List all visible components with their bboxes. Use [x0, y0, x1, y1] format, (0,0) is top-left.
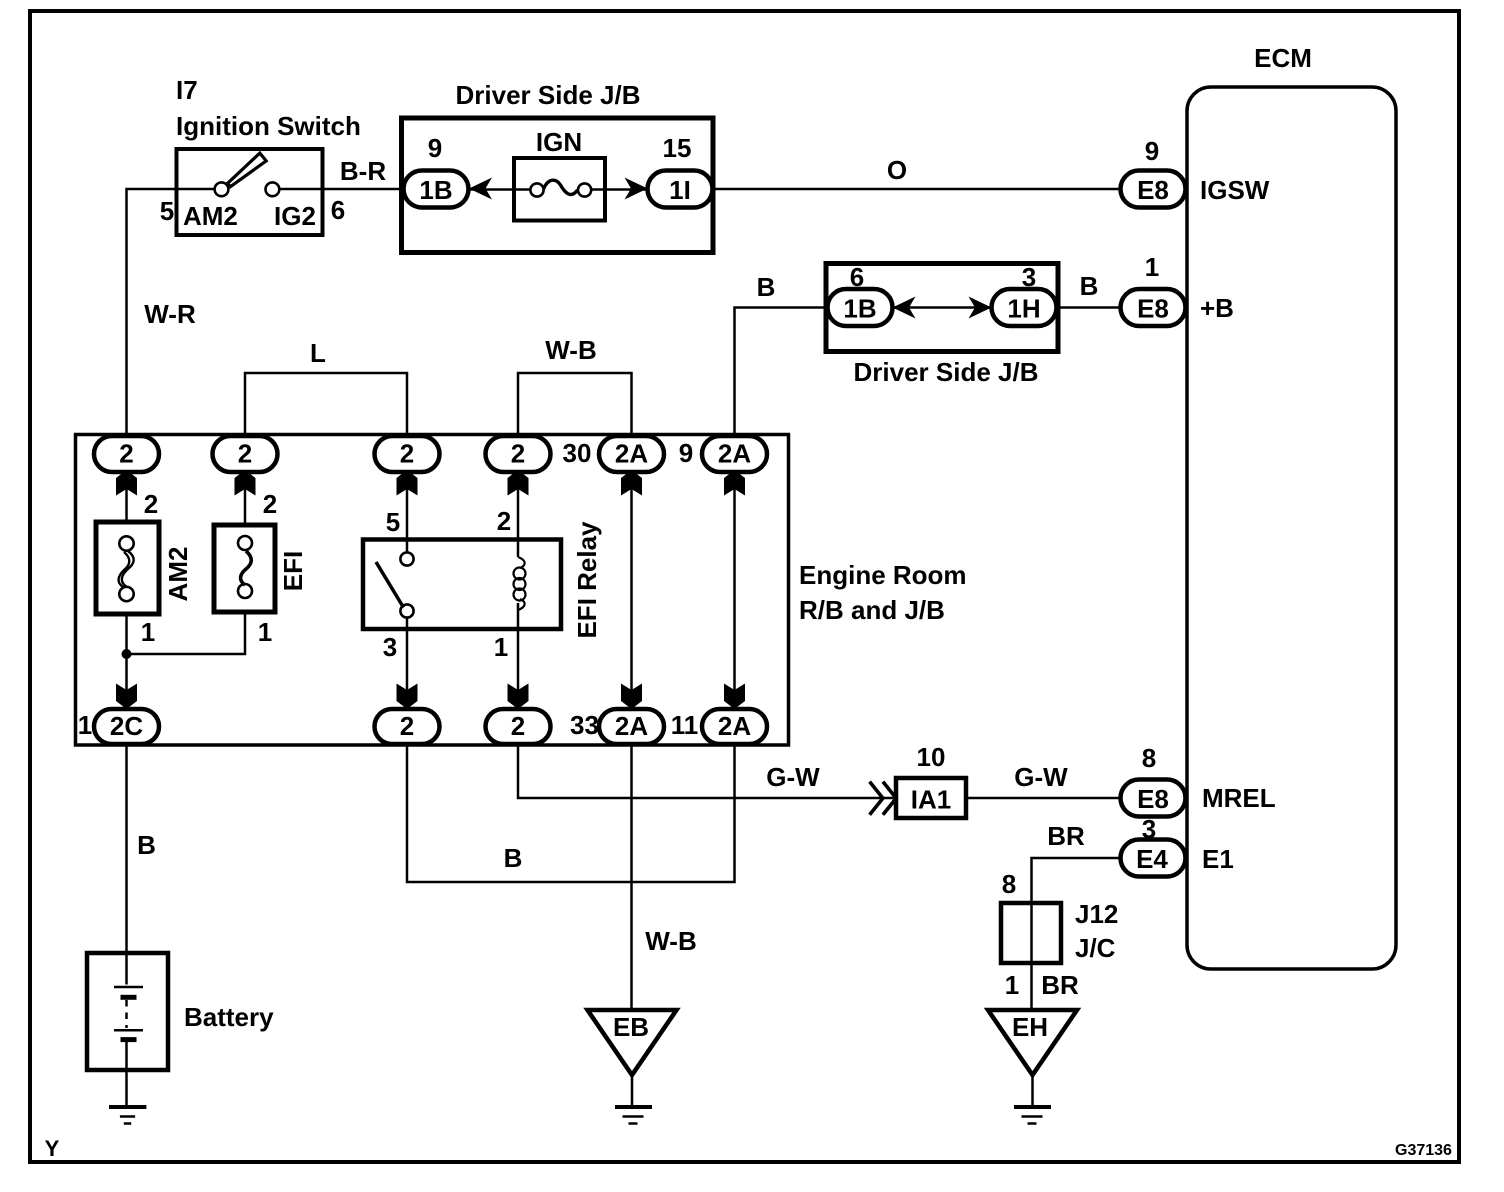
svg-text:2: 2 [400, 439, 414, 469]
Driver Side J/B (top) [402, 80, 714, 253]
connector E4 pin 3 (E1) [1121, 814, 1234, 877]
svg-text:6: 6 [850, 262, 864, 292]
fuse IGN [514, 127, 605, 221]
svg-text:Battery: Battery [184, 1002, 274, 1032]
svg-text:G37136: G37136 [1395, 1142, 1452, 1159]
svg-text:Engine Room: Engine Room [799, 560, 967, 590]
svg-text:B-R: B-R [340, 156, 386, 186]
svg-text:G-W: G-W [766, 762, 820, 792]
svg-text:2A: 2A [615, 439, 648, 469]
svg-text:1: 1 [78, 710, 92, 740]
svg-text:2A: 2A [718, 711, 751, 741]
svg-text:2C: 2C [110, 711, 143, 741]
svg-text:Driver Side J/B: Driver Side J/B [456, 80, 641, 110]
wire G-W to IA1 [518, 744, 896, 798]
connector 1B pin 6 [828, 262, 893, 326]
svg-text:AM2: AM2 [183, 201, 238, 231]
svg-text:2: 2 [238, 439, 252, 469]
svg-text:Ignition Switch: Ignition Switch [176, 111, 361, 141]
connector 1H pin 3 [992, 262, 1057, 326]
svg-text:W-B: W-B [645, 926, 696, 956]
connector IA1 pin 10 [896, 742, 966, 818]
connector E8 pin 1 (+B) [1121, 252, 1234, 326]
wire 1B to 1H internal [892, 306, 992, 309]
connector 2 (AM2 top) [94, 436, 159, 472]
svg-text:1: 1 [1145, 252, 1159, 282]
svg-text:6: 6 [331, 195, 345, 225]
svg-text:9: 9 [428, 133, 442, 163]
svg-text:BR: BR [1041, 970, 1079, 1000]
svg-text:IGSW: IGSW [1200, 175, 1270, 205]
svg-text:2: 2 [497, 506, 511, 536]
wire B lower route [407, 744, 735, 882]
svg-text:33: 33 [570, 710, 599, 740]
wire IG2 to 1B (B-R) [279, 188, 404, 191]
svg-text:B: B [1080, 271, 1099, 301]
EFI relay [363, 506, 602, 662]
svg-text:1: 1 [1005, 970, 1019, 1000]
connector E8 pin 9 (IGSW) [1121, 136, 1270, 208]
svg-text:2: 2 [511, 711, 525, 741]
connector 2 (coil 1 bottom) [486, 709, 551, 744]
svg-text:BR: BR [1047, 821, 1085, 851]
svg-text:Driver Side J/B: Driver Side J/B [854, 357, 1039, 387]
svg-text:3: 3 [1022, 262, 1036, 292]
svg-text:9: 9 [1145, 136, 1159, 166]
svg-text:8: 8 [1142, 743, 1156, 773]
ground (EH) [1014, 1107, 1051, 1124]
Driver Side J/B (second) [826, 264, 1058, 388]
connector 2 (relay coil top) [486, 436, 551, 472]
arrow up (2A9) [724, 470, 745, 496]
ground (battery) [109, 1107, 146, 1124]
svg-text:1B: 1B [843, 294, 876, 324]
wire 1B to IGN fuse [469, 188, 531, 191]
chevrons into IA1 [870, 782, 897, 815]
svg-text:2: 2 [144, 489, 158, 519]
svg-text:J/C: J/C [1075, 933, 1116, 963]
svg-text:MREL: MREL [1202, 783, 1276, 813]
connector 2A pin 30 [563, 436, 664, 472]
svg-text:2: 2 [263, 489, 277, 519]
svg-text:W-R: W-R [144, 299, 196, 329]
svg-text:11: 11 [671, 710, 699, 740]
wire battery B [125, 744, 128, 953]
wire 1H to E8 (B) [1057, 306, 1122, 309]
wire EH to ground [1031, 1075, 1034, 1105]
arrow down (2C) [116, 684, 137, 710]
fuse AM2 [96, 489, 193, 647]
svg-text:E8: E8 [1137, 784, 1169, 814]
ground point EH [988, 1010, 1077, 1075]
svg-text:2: 2 [119, 439, 133, 469]
wire B from 2A(9) to 1B [735, 308, 829, 437]
svg-text:2A: 2A [718, 439, 751, 469]
svg-text:1H: 1H [1007, 294, 1040, 324]
svg-text:I7: I7 [176, 75, 198, 105]
connector 2 (EFI top) [213, 436, 278, 472]
connector 2A pin 11 [671, 709, 767, 744]
arrow down (relay3) [397, 684, 418, 710]
svg-text:E1: E1 [1202, 844, 1234, 874]
connector 2 (relay 5 top) [375, 436, 440, 472]
ignition switch I7 [160, 75, 361, 235]
arrow down (2A11) [724, 684, 745, 710]
svg-text:+B: +B [1200, 293, 1234, 323]
svg-text:ECM: ECM [1254, 43, 1312, 73]
svg-text:B: B [757, 272, 776, 302]
svg-text:IGN: IGN [536, 127, 582, 157]
svg-text:10: 10 [917, 742, 946, 772]
wire J12 to EH (BR) [1030, 963, 1033, 1010]
connector 2A pin 33 [570, 709, 664, 744]
svg-text:5: 5 [160, 196, 174, 226]
arrow down (coil1) [508, 684, 529, 710]
svg-text:2A: 2A [615, 711, 648, 741]
svg-text:1B: 1B [419, 175, 452, 205]
connector 1B pin 9 [404, 133, 469, 208]
svg-text:IA1: IA1 [911, 785, 951, 815]
arrow up (coil) [508, 470, 529, 496]
fuse EFI [214, 489, 308, 647]
svg-text:Y: Y [45, 1136, 60, 1161]
junction dot [122, 649, 132, 659]
connector 2C pin 1 [78, 709, 159, 744]
wire AM2 column [125, 454, 128, 710]
connector 2 (relay 3 bottom) [375, 709, 440, 744]
wire relay pin5 column [406, 454, 409, 710]
svg-text:EH: EH [1012, 1012, 1048, 1042]
arrow up (relay5) [397, 470, 418, 496]
arrow into 1H [969, 297, 992, 319]
svg-text:O: O [887, 155, 907, 185]
svg-text:J12: J12 [1075, 899, 1118, 929]
wire AM2 feed (W-R) [127, 189, 215, 438]
wire relay coil column [517, 454, 520, 710]
arrow up (2A30) [621, 470, 642, 496]
junction J12 J/C [1001, 869, 1118, 963]
connector 2A pin 9 [679, 436, 767, 472]
svg-text:EFI Relay: EFI Relay [572, 521, 602, 639]
svg-text:1: 1 [141, 617, 155, 647]
ECM [1187, 43, 1396, 969]
arrow down (2A33) [621, 684, 642, 710]
svg-text:1: 1 [258, 617, 272, 647]
svg-text:1I: 1I [669, 175, 691, 205]
battery [87, 953, 274, 1105]
arrow into 1B [469, 178, 492, 200]
svg-text:B: B [137, 830, 156, 860]
svg-text:5: 5 [386, 507, 400, 537]
svg-text:15: 15 [663, 133, 692, 163]
wire EFI column [127, 454, 246, 654]
svg-text:B: B [504, 843, 523, 873]
wire IGN fuse to 1I [591, 188, 650, 191]
connector 1I pin 15 [648, 133, 713, 208]
connector E8 pin 8 (MREL) [1121, 743, 1276, 817]
wire IA1 to E8 (G-W) [966, 797, 1121, 800]
svg-text:2: 2 [511, 439, 525, 469]
ground point EB [588, 1010, 677, 1075]
arrow into 1I [625, 178, 648, 200]
wire W-B to EB [630, 744, 633, 1010]
svg-text:E4: E4 [1136, 844, 1168, 874]
svg-text:1: 1 [494, 632, 508, 662]
svg-text:E8: E8 [1137, 175, 1169, 205]
svg-text:30: 30 [563, 438, 592, 468]
svg-text:W-B: W-B [545, 335, 596, 365]
arrow up (AM2) [116, 470, 137, 496]
svg-text:2: 2 [400, 711, 414, 741]
svg-text:R/B and J/B: R/B and J/B [799, 595, 945, 625]
svg-text:E8: E8 [1137, 294, 1169, 324]
wire 2A-9 column [733, 454, 736, 710]
wire W-B bridge [518, 373, 632, 438]
wire 2A-30 column [630, 454, 633, 710]
svg-text:9: 9 [679, 438, 693, 468]
svg-text:3: 3 [1142, 814, 1156, 844]
svg-text:8: 8 [1002, 869, 1016, 899]
svg-text:AM2: AM2 [163, 547, 193, 602]
Engine Room R/B and J/B [76, 435, 967, 746]
arrow into 1B (second) [893, 297, 916, 319]
wire L bridge [245, 373, 407, 438]
svg-text:G-W: G-W [1014, 762, 1068, 792]
ground (EB) [615, 1107, 652, 1124]
svg-text:EFI: EFI [278, 551, 308, 591]
wire EB to ground [631, 1075, 634, 1105]
svg-text:IG2: IG2 [274, 201, 316, 231]
svg-text:EB: EB [613, 1012, 649, 1042]
arrow up (EFI) [235, 470, 256, 496]
svg-text:3: 3 [383, 632, 397, 662]
svg-text:L: L [310, 338, 326, 368]
wire 1I to E8 (O) [713, 188, 1121, 191]
wire E4 to J12 (BR) [1032, 858, 1122, 903]
